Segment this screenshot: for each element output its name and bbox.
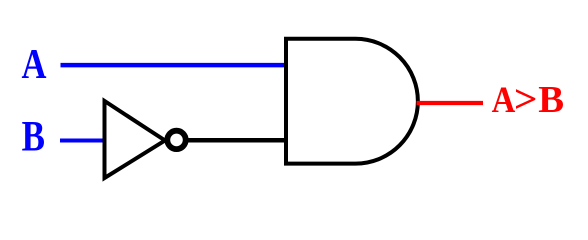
- svg-text:B: B: [538, 79, 564, 120]
- svg-text:>: >: [514, 77, 538, 121]
- svg-text:A: A: [492, 79, 516, 120]
- inverter U1 triangle: [105, 101, 166, 178]
- inverter U1 bubble: [167, 131, 185, 149]
- wire output: [417, 101, 484, 105]
- svg-text:B: B: [22, 112, 45, 161]
- wire A input: [61, 63, 287, 68]
- AND gate U2: [286, 39, 418, 164]
- svg-text:A: A: [21, 42, 46, 88]
- wire B input: [60, 139, 105, 143]
- wire inverter output to AND gate: [186, 138, 286, 143]
